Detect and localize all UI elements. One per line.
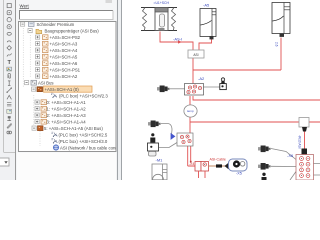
svg-text:temp: temp bbox=[187, 109, 194, 113]
svg-text:ASI Bus: ASI Bus bbox=[38, 80, 54, 85]
svg-text:Schneider Premium: Schneider Premium bbox=[37, 22, 75, 27]
svg-text:-AS-I: -AS-I bbox=[173, 37, 182, 42]
svg-text:+ASI=SCH-A4: +ASI=SCH-A4 bbox=[50, 48, 78, 53]
svg-text:2: +ASI=SCH-A1-A3: 2: +ASI=SCH-A1-A3 bbox=[47, 113, 87, 118]
svg-text:2.6: 2.6 bbox=[275, 42, 279, 47]
svg-text:(PLC box) +ASI+SCH/2.3: (PLC box) +ASI+SCH/2.3 bbox=[59, 93, 108, 98]
svg-text:ASI-Cable: ASI-Cable bbox=[210, 157, 226, 161]
svg-text:+ASI=SCH-A3: +ASI=SCH-A3 bbox=[50, 41, 78, 46]
svg-text:+ASI=SCH-A2: +ASI=SCH-A2 bbox=[50, 74, 78, 79]
svg-text:-X4: -X4 bbox=[189, 162, 195, 166]
svg-text:-M1: -M1 bbox=[156, 158, 164, 163]
svg-text:-A5: -A5 bbox=[203, 3, 210, 8]
svg-text:-X5: -X5 bbox=[236, 172, 242, 176]
svg-text:ASI: ASI bbox=[193, 53, 198, 57]
svg-text:Wert: Wert bbox=[20, 4, 30, 9]
svg-text:Baugruppenträger (ASI Bus): Baugruppenträger (ASI Bus) bbox=[45, 28, 100, 33]
svg-text:ASI (Network / bus cable conne: ASI (Network / bus cable conne bbox=[60, 145, 121, 150]
svg-text:0: +ASI=SCH-A1-A1: 0: +ASI=SCH-A1-A1 bbox=[47, 100, 87, 105]
svg-text:1: +ASI=SCH-A1-A2: 1: +ASI=SCH-A1-A2 bbox=[47, 106, 87, 111]
svg-text:+ASI=SCH-A5: +ASI=SCH-A5 bbox=[50, 54, 78, 59]
svg-text:T: T bbox=[7, 60, 11, 66]
svg-text:+ASI=SCH-PS2: +ASI=SCH-PS2 bbox=[50, 35, 81, 40]
svg-text:5: +ASI=SCH-A1-A5 (ASI Bus): 5: +ASI=SCH-A1-A5 (ASI Bus) bbox=[44, 126, 103, 131]
svg-text:(PLC box) +ASI+SCH/3.0: (PLC box) +ASI+SCH/3.0 bbox=[59, 139, 108, 144]
svg-text:+ASI=SCH-A6: +ASI=SCH-A6 bbox=[50, 61, 78, 66]
svg-text:3: +ASI=SCH-A1-A4: 3: +ASI=SCH-A1-A4 bbox=[47, 119, 87, 124]
svg-text:+ASI=SCH-PS1: +ASI=SCH-PS1 bbox=[50, 67, 81, 72]
svg-text:-X6: -X6 bbox=[287, 153, 294, 158]
svg-text:-A2: -A2 bbox=[198, 76, 205, 81]
svg-text:=U1+SCH: =U1+SCH bbox=[154, 1, 170, 5]
svg-text:+ASI=SCH-A1 (0): +ASI=SCH-A1 (0) bbox=[45, 87, 80, 92]
svg-text:-W19 ASI: -W19 ASI bbox=[298, 135, 302, 149]
svg-text:(PLC box) +ASI+SCH/2.5: (PLC box) +ASI+SCH/2.5 bbox=[59, 132, 108, 137]
